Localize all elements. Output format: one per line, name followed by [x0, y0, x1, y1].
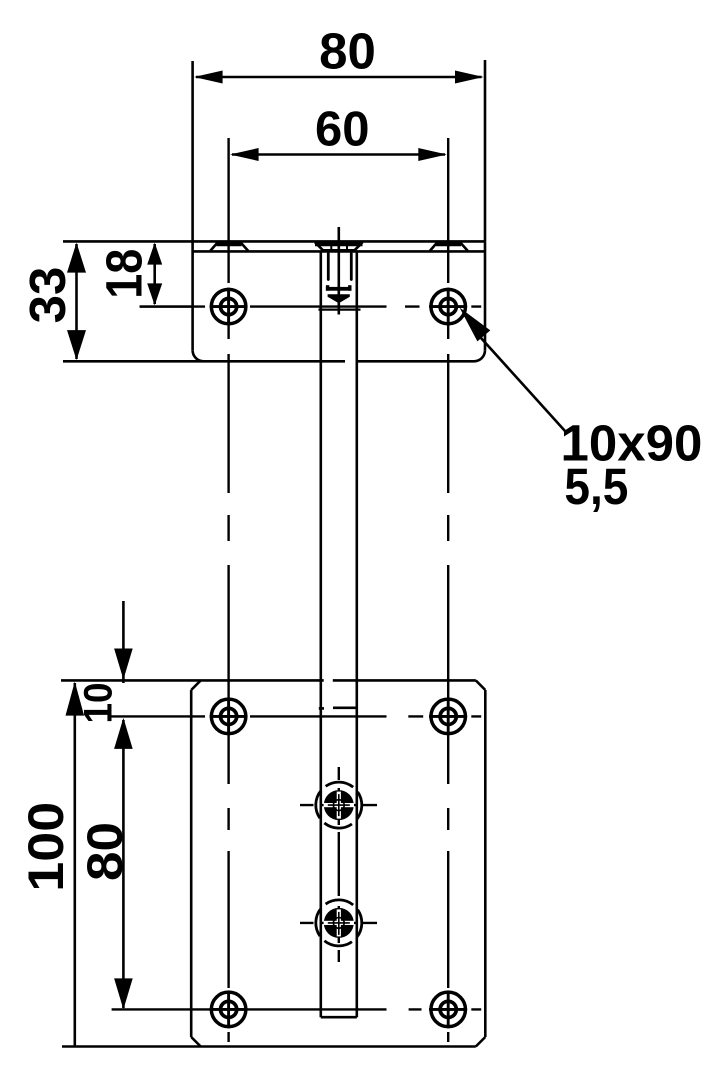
- bottom plate bottom-left chamfer: [191, 1037, 201, 1047]
- horizontal centerline hole row 1: [111, 715, 481, 717]
- screw shank right line: [350, 254, 353, 280]
- svg-text:18: 18: [95, 249, 152, 299]
- column left wall: [319, 251, 322, 1017]
- horizontal centerline top plate: [140, 305, 481, 307]
- svg-text:5,5: 5,5: [564, 458, 628, 515]
- svg-text:80: 80: [77, 822, 133, 881]
- svg-text:100: 100: [18, 802, 74, 892]
- top plate bottom-left rounded corner: [193, 350, 204, 361]
- dimension 60 line: [230, 148, 447, 161]
- top plate inner line (countersink depth): [193, 250, 485, 253]
- horizontal centerline middle hole B: [300, 922, 377, 924]
- bottom plate hole top-left: [210, 698, 248, 736]
- dimension 18 extension line: [140, 305, 193, 307]
- leader line to hole callout: [460, 308, 566, 432]
- top plate bottom-right rounded corner: [474, 350, 485, 361]
- bottom plate bottom-right chamfer: [476, 1037, 486, 1047]
- column right wall: [355, 251, 358, 1017]
- dimension 100 line: [66, 682, 85, 1047]
- screw cone tip: [328, 294, 350, 303]
- svg-text:80: 80: [319, 23, 376, 80]
- top plate bottom edge with left extension for dim 33: [63, 360, 345, 363]
- top plate right edge: [484, 241, 487, 350]
- top plate right hole: [429, 288, 467, 326]
- bottom plate top edge right segment: [333, 679, 476, 682]
- bottom plate top-right chamfer: [476, 680, 486, 690]
- top plate left hole: [210, 288, 248, 326]
- bottom plate top-left chamfer: [191, 680, 201, 690]
- dimension 80 line: [194, 71, 484, 84]
- dimension 18 line: [147, 243, 162, 306]
- countersink trace left hole: [210, 242, 248, 251]
- dimension 80 extension line left: [191, 61, 194, 241]
- bottom plate left edge: [190, 690, 193, 1037]
- screw washer: [326, 285, 352, 291]
- bottom plate hole bottom-left: [210, 991, 248, 1029]
- screw shank left line: [327, 254, 330, 280]
- vertical centerline right (60 ext + hole axis): [447, 138, 449, 1042]
- top plate top edge with left extension for dim 33: [63, 240, 485, 243]
- dimension 33 line: [67, 243, 86, 361]
- horizontal centerline middle hole A: [300, 804, 377, 806]
- screw axis line: [337, 227, 340, 315]
- bottom plate hole bottom-right: [429, 991, 467, 1029]
- svg-text:60: 60: [315, 103, 370, 157]
- middle hole A: [307, 773, 371, 837]
- bottom plate bottom edge with left extension: [62, 1045, 476, 1048]
- top plate left edge: [191, 241, 194, 350]
- svg-text:33: 33: [19, 267, 76, 324]
- screw countersunk head: [315, 242, 363, 250]
- bottom plate right edge: [484, 690, 487, 1037]
- top plate bottom edge right segment: [357, 360, 474, 363]
- middle hole B: [307, 891, 371, 955]
- bottom plate hole top-right: [429, 698, 467, 736]
- dimension 10 upper arrow line: [114, 601, 133, 683]
- hidden line at column joint: [319, 706, 357, 709]
- countersink trace right hole: [430, 242, 468, 251]
- vertical centerline middle holes: [338, 767, 340, 962]
- line under column at hole axis: [319, 309, 361, 311]
- vertical centerline left (60 ext + hole axis): [227, 138, 229, 1042]
- horizontal centerline hole row 2: [112, 1008, 482, 1010]
- dimension 80 vertical line: [114, 718, 133, 1010]
- dimension 80 extension line right: [484, 60, 487, 241]
- column bottom end line: [321, 1016, 357, 1019]
- bottom plate top edge with left extension: [61, 679, 324, 682]
- svg-text:10: 10: [76, 683, 120, 724]
